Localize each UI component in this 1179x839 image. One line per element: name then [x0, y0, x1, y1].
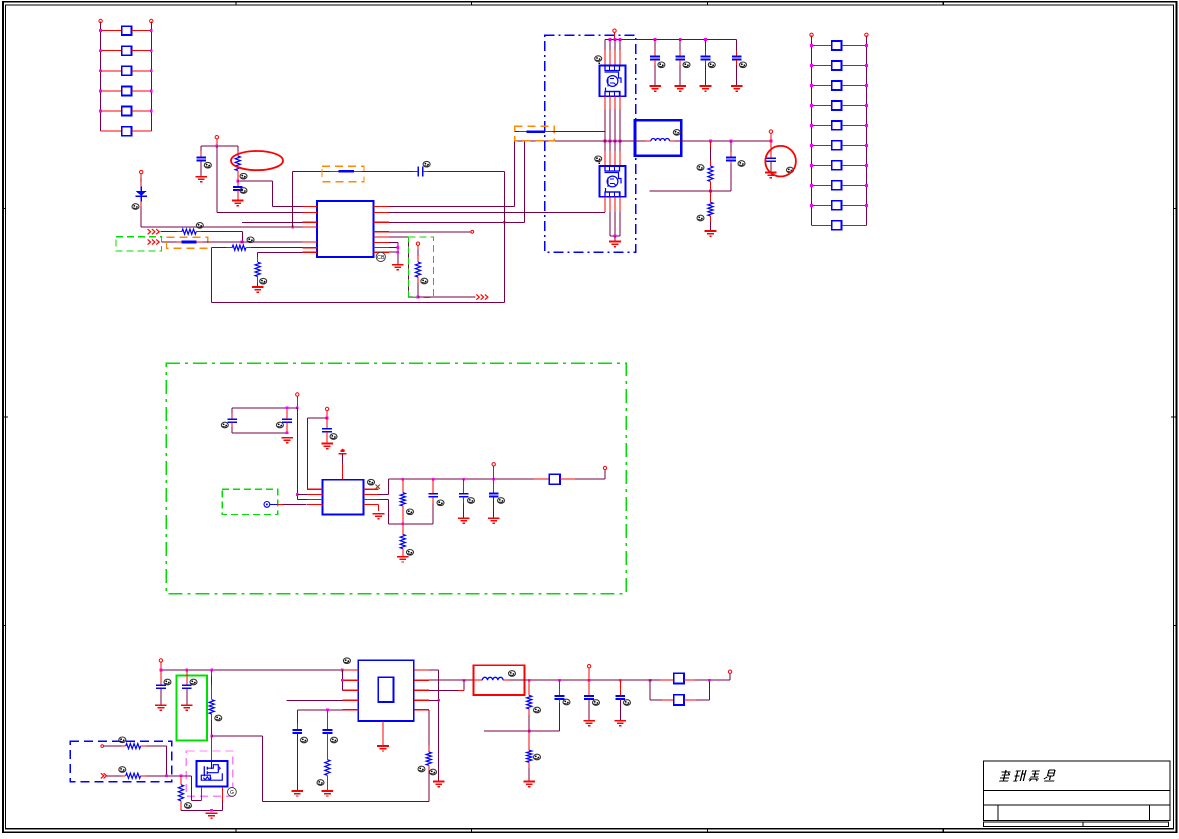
capacitor CR2 row	[812, 64, 832, 66]
capacitor C6	[705, 40, 707, 51]
left stack rail B	[150, 22, 152, 132]
wire row1 to R2	[161, 231, 177, 233]
ground C16	[488, 518, 500, 523]
ground x438	[433, 782, 445, 787]
wire U1 pin R5 down	[389, 236, 408, 238]
wire FB2 to U1 pin L5	[197, 241, 203, 243]
resistor R13	[180, 776, 182, 779]
Q1 upper column wires	[605, 40, 620, 66]
left stack junction dots	[99, 29, 153, 112]
capacitor CR4 row	[812, 104, 832, 106]
wire R13 to gnd node	[181, 809, 212, 811]
junction dot R6 bottom	[709, 190, 712, 193]
port P2 in GB3	[416, 242, 419, 245]
resistor R4	[257, 252, 259, 256]
inductor L1	[620, 140, 645, 142]
vertical x=292 net	[292, 171, 294, 227]
green solid box	[176, 675, 207, 740]
resistor R8	[402, 479, 404, 486]
junction dot R16 bottom	[528, 730, 531, 733]
node symbol N1	[264, 502, 270, 508]
label C9	[738, 161, 745, 167]
ground R4	[252, 287, 264, 292]
label C23	[624, 700, 631, 706]
port circle right stack B	[865, 33, 868, 36]
junction dot J out	[708, 679, 711, 682]
ground C15	[458, 518, 470, 523]
capacitor CL1 row	[101, 30, 122, 32]
wire P7 to rail	[493, 466, 495, 479]
rail junction dots	[401, 478, 404, 481]
port P10	[587, 665, 590, 668]
resistor R16	[528, 680, 530, 688]
wire rowA to R11	[104, 745, 122, 747]
capacitor CR6 row	[812, 144, 832, 146]
left stack rail A	[100, 22, 102, 132]
wire U1 pin R2 to Q2	[389, 211, 605, 213]
chevron input row 1	[148, 229, 160, 234]
label C14	[437, 500, 444, 506]
junction dot D1 line	[291, 226, 294, 229]
U2 left pin stubs	[307, 489, 323, 504]
label C3	[423, 161, 430, 167]
ground Q3	[206, 813, 218, 818]
capacitor C21	[558, 680, 560, 689]
port P7	[492, 463, 495, 466]
ferrite bead FB2	[181, 241, 196, 244]
junction dots row B	[165, 774, 168, 777]
inductor L2	[473, 679, 476, 681]
ground C12	[281, 438, 293, 443]
U3 inner rect	[378, 677, 393, 702]
wire y191 to C9	[711, 190, 732, 192]
junction dot gate node	[210, 735, 213, 738]
resistor R14	[325, 760, 330, 776]
wire row3 corner	[212, 247, 227, 249]
wire U1 pin R4 open end	[389, 231, 471, 233]
wire P5 node down to U2	[296, 408, 298, 495]
junction dot R2R3	[463, 679, 466, 682]
label CB near U1	[376, 252, 385, 261]
port P8	[603, 466, 606, 469]
capacitor C4	[654, 40, 656, 51]
resistor R9	[402, 524, 404, 529]
U3 bottom pin	[382, 721, 384, 746]
ground C2	[232, 201, 244, 206]
label C2	[240, 188, 247, 194]
label R14	[317, 780, 324, 786]
capacitor C7	[736, 40, 738, 51]
port P9	[159, 659, 162, 662]
capacitor CR10 row	[812, 224, 832, 226]
title block cell divider left	[997, 805, 999, 821]
big green dash-dot box	[166, 363, 626, 594]
label R4	[260, 278, 267, 284]
wire VCC to U2 top	[342, 454, 344, 464]
Q1 lower column wires	[605, 96, 620, 141]
label C10	[787, 167, 794, 173]
junction dot U3 L2	[341, 679, 344, 682]
diode D1 port	[140, 170, 143, 173]
ground C6	[700, 86, 712, 91]
junction dot gnd node	[210, 809, 213, 812]
blue dash-dot box	[545, 35, 636, 252]
label L2	[509, 671, 516, 677]
port P5	[296, 393, 299, 396]
wire rail to F1	[533, 478, 549, 480]
orange dashed box OB2	[167, 237, 208, 248]
label L1	[673, 130, 680, 136]
wire y731	[484, 730, 529, 732]
capacitor C20	[326, 710, 328, 723]
wire bypass down	[649, 680, 651, 700]
junction node B	[241, 241, 244, 244]
ground C7	[731, 86, 743, 91]
ground C23	[615, 721, 627, 726]
wire N1 to U2 pinL4	[270, 503, 277, 505]
junction dots R6-R8	[396, 246, 399, 249]
capacitor C12	[286, 408, 288, 414]
chevron row B	[101, 773, 107, 778]
port circle rail A top	[99, 19, 102, 22]
jumper J1 (blue square)	[674, 673, 684, 683]
junction dot P6	[326, 417, 329, 420]
wire U2 pinL2 stub	[297, 493, 307, 495]
Q2 upper column wires	[605, 141, 620, 166]
label C19	[301, 737, 308, 743]
resistor R10	[211, 670, 213, 676]
wire C11 bottom	[232, 432, 287, 434]
IC U3	[358, 660, 414, 721]
U1 left pin stubs	[302, 206, 317, 252]
title block cell divider right	[1148, 805, 1150, 821]
wire y191 open left	[649, 190, 710, 192]
label R1	[240, 173, 247, 179]
port P6	[325, 407, 328, 410]
wire D1 to U1 pin L4	[140, 201, 142, 206]
capacitor C19	[296, 710, 298, 723]
ground C5	[674, 86, 686, 91]
capacitor C2	[237, 181, 239, 187]
capacitor C3 (series)	[414, 170, 419, 172]
resistor R17	[528, 731, 530, 737]
wire R12 to gate net	[141, 775, 147, 777]
label R9	[407, 550, 414, 556]
wire P3 to rail	[614, 32, 616, 39]
ground R17	[523, 782, 535, 787]
wire P4 to node	[770, 133, 772, 141]
label C11	[221, 422, 228, 428]
junction dots rail y670	[160, 669, 163, 672]
wire U3 R5 down	[428, 709, 430, 711]
capacitor C9	[730, 141, 732, 152]
Q2 col1 wire to U1	[604, 197, 606, 213]
port circle rail B top	[150, 19, 153, 22]
label C7	[740, 62, 747, 68]
transistor module Q2	[600, 166, 626, 197]
right stack rail B	[865, 35, 867, 225]
wire node A to U1 pin L1	[238, 180, 272, 182]
label U3	[343, 658, 350, 664]
label C16	[498, 498, 505, 504]
ground U1 right	[392, 265, 404, 270]
label R12	[119, 767, 126, 773]
wire rail to P11	[709, 679, 730, 681]
junction node A	[236, 180, 239, 183]
label R13	[185, 803, 192, 809]
wire U2 pinR2 up to rail	[379, 493, 389, 495]
capacitor C17	[160, 670, 162, 678]
label C15	[468, 498, 475, 504]
wire node to C1	[201, 145, 217, 147]
wire R2 to node B	[196, 231, 201, 233]
wire U1 pins R6-R8 to gnd	[389, 241, 398, 243]
wire U3 L4 open stub	[286, 699, 342, 701]
wire P10 down	[588, 668, 590, 680]
U3 left pin stubs	[343, 670, 359, 710]
blue dashed box inputs	[70, 741, 172, 782]
rail dots	[528, 679, 531, 682]
label R17	[534, 754, 541, 760]
capacitor C11	[231, 413, 233, 419]
IC U2	[323, 480, 364, 515]
junction dot Q2 source	[614, 235, 617, 238]
capacitor CR1 row	[812, 44, 832, 46]
title block outer box	[983, 761, 1170, 821]
ground C17	[155, 705, 167, 710]
wire row3 down to bottom rail	[211, 248, 213, 303]
title block bottom strip	[984, 822, 1169, 827]
U3 right pin stubs	[414, 670, 429, 710]
wire node to C11	[232, 407, 297, 409]
capacitor CL5 row	[101, 110, 122, 112]
label Q1	[595, 56, 602, 62]
wire J1 out	[684, 679, 695, 681]
label R2	[196, 223, 203, 229]
top rail y=39.6	[605, 39, 737, 41]
port P11	[728, 670, 731, 673]
ground R14	[322, 791, 334, 796]
ground C10	[765, 173, 777, 178]
green dashed box GB3	[408, 237, 433, 297]
wire J2 out up	[684, 699, 696, 701]
wire F1 out	[560, 478, 575, 480]
wire U1R1 net y141	[515, 140, 646, 142]
resistor R12	[126, 773, 141, 778]
junction dot R3/vert	[503, 221, 506, 224]
jumper J2 (blue square)	[674, 695, 684, 705]
orange dashed box OB1	[515, 126, 555, 141]
svg-text:G: G	[230, 790, 234, 796]
label R16	[534, 707, 541, 713]
wire L1 out	[675, 140, 771, 142]
title block row line 2	[983, 804, 1170, 806]
bottom rail y670	[161, 669, 342, 671]
capacitor C16	[493, 479, 495, 487]
wire P5 down	[296, 396, 298, 408]
pink dashed box	[186, 751, 233, 796]
label R15	[418, 766, 425, 772]
resistor R2	[182, 229, 196, 234]
resistor R3	[232, 245, 246, 250]
ground C18	[181, 705, 193, 710]
title block row line 1	[983, 790, 1170, 792]
junction dot C12 top	[286, 406, 289, 409]
capacitor CR3 row	[812, 84, 832, 86]
label R8	[407, 509, 414, 515]
port small row A	[101, 745, 104, 748]
annotation circle (red)	[765, 146, 796, 177]
wire R3 to U1 pin L6	[246, 247, 251, 249]
wire rail to jumpers	[650, 679, 660, 681]
wire U1 pin L3 stub	[242, 221, 303, 223]
green dashed box GB2	[116, 237, 162, 251]
capacitor CL4 row	[101, 90, 122, 92]
wire U3 R4 stub	[429, 699, 439, 701]
wire node to R1	[217, 145, 238, 147]
wire gate route	[191, 776, 193, 801]
wire U1 pin L7 corner	[258, 251, 303, 253]
rail y479 wire	[388, 478, 533, 480]
label R6	[697, 165, 704, 171]
label C1	[204, 162, 211, 168]
resistor R11	[126, 744, 141, 749]
red box (inductor)	[473, 665, 524, 695]
wire L2 out rail	[509, 679, 650, 681]
label C22	[593, 700, 600, 706]
small green dashed box GB4	[222, 489, 278, 514]
label R7	[697, 215, 704, 221]
capacitor C1	[200, 146, 202, 151]
resistor R5	[417, 245, 419, 250]
wire U2 pinR4 gnd	[378, 504, 380, 511]
resistor R15	[426, 752, 431, 765]
label C17	[164, 679, 171, 685]
resistor R6	[710, 141, 712, 147]
label C21	[563, 699, 570, 705]
capacitor CL3 row	[101, 70, 122, 72]
label R11	[119, 737, 126, 743]
label C12	[276, 422, 283, 428]
ground C19	[292, 791, 304, 796]
title text 緯創資通	[999, 770, 1011, 781]
MOSFET module Q3	[196, 761, 227, 786]
ferrite bead FB3	[515, 131, 519, 133]
label C6	[708, 62, 715, 68]
Q2 source bar	[610, 235, 620, 237]
diode D1	[135, 187, 147, 202]
label C5	[683, 62, 690, 68]
wire P1 node down to U1 pin L2	[216, 146, 218, 212]
wire gate node to Q3	[211, 736, 213, 761]
resistor R7	[710, 191, 712, 196]
label C13	[330, 434, 337, 440]
ferrite bead FB1	[330, 170, 339, 172]
label C20	[331, 737, 338, 743]
ground U2 pinR4	[373, 514, 385, 519]
label D1	[132, 204, 139, 210]
orange dashed box OB1b	[322, 166, 364, 181]
capacitor C10	[770, 141, 772, 152]
ground C13	[321, 444, 333, 449]
wire P9 down	[160, 662, 162, 670]
capacitor CR9 row	[812, 204, 832, 206]
capacitor C18	[186, 670, 188, 678]
svg-text:CB: CB	[377, 255, 385, 261]
chevron input row 2	[148, 239, 160, 244]
wire gate node right-down	[212, 735, 263, 737]
power arrow VCC	[339, 449, 347, 454]
junction dot at P1 node	[215, 145, 218, 148]
wire FB1 to C3	[362, 170, 414, 172]
wire GB3 to chevrons out	[418, 296, 476, 298]
label R3	[247, 237, 254, 243]
capacitor CR7 row	[812, 164, 832, 166]
inductor box (blue)	[635, 120, 681, 156]
ground C4	[649, 86, 661, 91]
wire U2 pinR3 down loop	[379, 498, 389, 500]
capacitor C15	[463, 479, 465, 487]
capacitor CL2 row	[101, 50, 122, 52]
wire U1 pin R3 right-up	[389, 221, 525, 223]
wire U3 L1-L3 link	[341, 670, 343, 690]
label Q2	[595, 156, 602, 162]
ground R9	[397, 557, 409, 562]
wire C3 to x504 corner	[428, 170, 504, 172]
label C18	[190, 679, 197, 685]
wire rowB to R12	[107, 775, 122, 777]
label U2 pinR1	[368, 479, 375, 485]
wire port P1 down	[216, 139, 218, 146]
junction dot L5	[326, 708, 329, 711]
right stack rail A	[811, 35, 813, 225]
annotation ellipse (red)	[231, 151, 283, 170]
wire Q3 source down	[222, 787, 224, 801]
fuse F1 (blue square)	[549, 474, 560, 484]
port P4	[769, 130, 772, 133]
capacitor C22	[588, 680, 590, 689]
bottom rail wire	[212, 301, 505, 303]
no-connect X	[376, 485, 380, 489]
resistor R1	[237, 151, 239, 156]
junction dots L1 out	[709, 140, 712, 143]
junction dot C12 bottom	[286, 431, 289, 434]
port P1	[215, 136, 218, 139]
junction dot U2 pinL2	[296, 493, 299, 496]
label R5	[421, 278, 428, 284]
capacitor CL6 row	[101, 130, 122, 132]
capacitor C23	[619, 680, 621, 689]
wire U3 R3 up link	[429, 689, 458, 691]
capacitor C14	[432, 479, 434, 487]
capacitor CR5 row	[812, 124, 832, 126]
junction dot R8 bottom	[401, 522, 404, 525]
U2 right pin stubs	[364, 489, 379, 504]
Q2 lower column wires	[610, 197, 620, 236]
ground Q2	[614, 236, 616, 241]
label x438 gnd	[430, 769, 437, 775]
port P3 top	[613, 29, 616, 32]
label C4	[658, 62, 665, 68]
IC U1	[317, 201, 374, 257]
wire row2 to ferrite FB2	[162, 241, 177, 243]
ground C22	[583, 721, 595, 726]
capacitor C5	[679, 40, 681, 51]
label Q3	[228, 788, 237, 797]
wire P6 down	[326, 411, 328, 418]
U1 right pin stubs	[374, 206, 389, 252]
right stack junction dots	[810, 44, 868, 207]
